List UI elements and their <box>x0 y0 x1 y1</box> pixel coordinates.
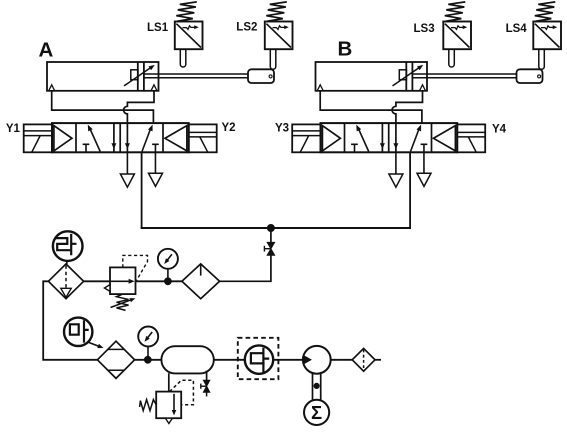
svg-text:Σ: Σ <box>311 402 322 423</box>
svg-text:Y4: Y4 <box>492 123 507 135</box>
svg-text:Y1: Y1 <box>6 123 21 135</box>
svg-text:B: B <box>338 38 353 61</box>
svg-text:LS2: LS2 <box>236 22 257 34</box>
svg-text:LS1: LS1 <box>147 22 169 34</box>
svg-text:LS4: LS4 <box>506 23 528 35</box>
svg-text:A: A <box>39 39 54 62</box>
svg-text:LS3: LS3 <box>414 23 435 35</box>
svg-text:Y3: Y3 <box>275 122 289 134</box>
svg-text:Y2: Y2 <box>222 122 236 134</box>
